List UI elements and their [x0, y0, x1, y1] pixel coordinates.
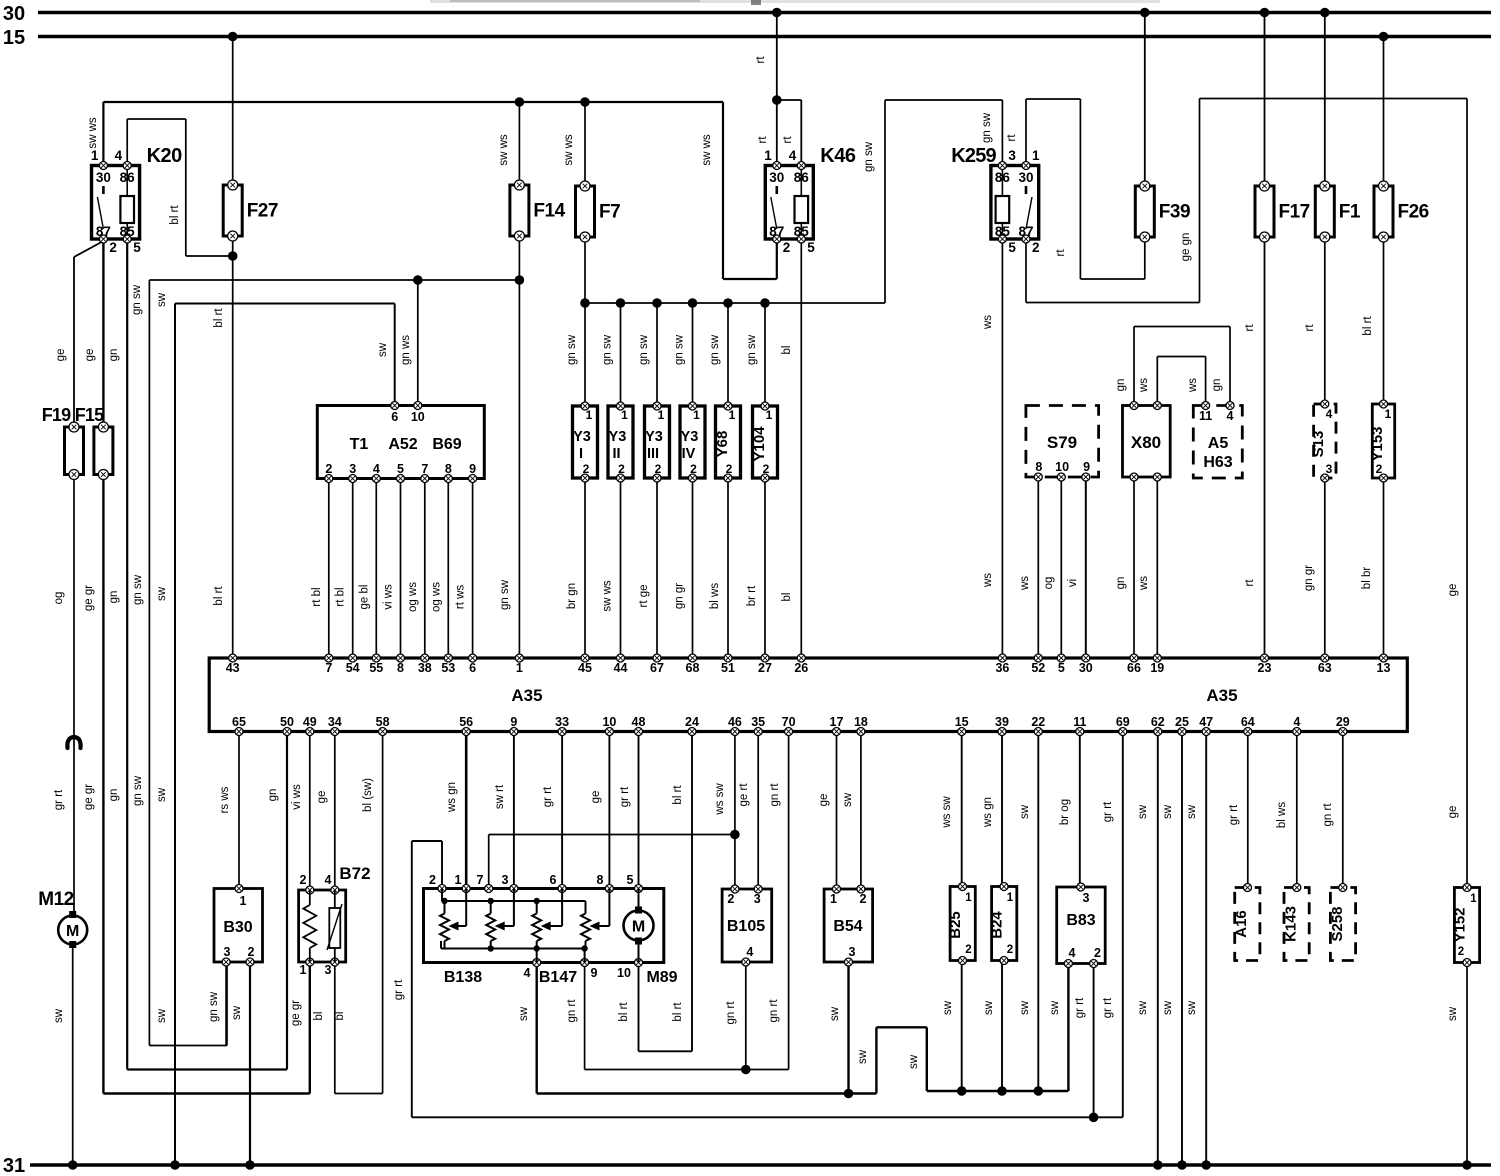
svg-text:4: 4 [325, 873, 332, 887]
svg-text:52: 52 [1031, 661, 1045, 675]
svg-text:25: 25 [1175, 715, 1189, 729]
fuse F27 [223, 180, 278, 241]
svg-text:bl: bl [781, 593, 793, 602]
svg-text:15: 15 [3, 27, 25, 49]
node sw on busbar 31 [170, 1160, 180, 1170]
wire bl ws from A35-4 to K143 [1276, 732, 1297, 886]
busbar 15 [3, 27, 1491, 49]
svg-text:64: 64 [1241, 715, 1255, 729]
node F26 on busbar 15 [1379, 32, 1389, 42]
svg-text:B30: B30 [223, 919, 252, 936]
svg-text:4: 4 [746, 945, 753, 959]
svg-text:10: 10 [617, 966, 631, 980]
svg-text:19: 19 [1150, 661, 1164, 675]
svg-text:15: 15 [955, 715, 969, 729]
svg-text:8: 8 [397, 661, 404, 675]
svg-text:2: 2 [860, 892, 867, 906]
svg-text:34: 34 [328, 715, 342, 729]
svg-text:gr rt: gr rt [1102, 801, 1114, 822]
wire gn sw F7 to Y3-I and manifold [566, 237, 585, 406]
wire sw from A35-22 to ground net [1019, 732, 1038, 1092]
svg-text:10: 10 [1055, 460, 1069, 474]
svg-text:ge gn: ge gn [1180, 233, 1192, 262]
svg-text:sw: sw [1019, 804, 1031, 819]
node gn sw tap Y3-II [616, 298, 626, 308]
svg-text:46: 46 [728, 715, 742, 729]
wire rt from F39 to K259-30 [1006, 99, 1145, 279]
svg-text:Y153: Y153 [1369, 426, 1386, 461]
wire gn sw to Y3-II [602, 303, 621, 406]
valve Y153 [1369, 400, 1395, 482]
svg-text:F19: F19 [42, 405, 71, 425]
wire br rt from valve to A35 [746, 478, 765, 658]
svg-text:gr rt: gr rt [53, 789, 65, 810]
wire sw from M12 to busbar 31 [53, 944, 73, 1165]
node F7 tap on sw ws wire [580, 97, 590, 107]
svg-text:5: 5 [1008, 240, 1016, 255]
svg-text:30: 30 [1018, 170, 1033, 185]
svg-text:sw: sw [942, 1000, 954, 1015]
A35 pin 36 [995, 654, 1009, 675]
svg-text:70: 70 [782, 715, 796, 729]
busbar 31 [3, 1155, 1491, 1176]
wire ws gn from A35-56 to B138-1 [446, 732, 466, 889]
wire gn from X80 to A35-66 [1115, 477, 1134, 658]
svg-text:gn: gn [108, 591, 120, 604]
svg-text:M: M [66, 923, 79, 940]
svg-text:4: 4 [1293, 715, 1300, 729]
sensor B30 [214, 885, 263, 967]
A35 pin 69 [1116, 715, 1130, 736]
svg-text:sw: sw [156, 586, 168, 601]
svg-text:bl rt: bl rt [169, 205, 181, 225]
A35 pin 70 [782, 715, 796, 736]
sensor B105 [722, 885, 772, 966]
svg-text:sw: sw [1049, 1000, 1061, 1015]
wire ge from K20-87 to F15 [84, 240, 103, 428]
svg-text:A35: A35 [511, 686, 542, 705]
svg-text:II: II [612, 446, 620, 462]
svg-text:br og: br og [1059, 799, 1071, 825]
svg-text:F14: F14 [533, 201, 565, 222]
node K46-86 branch [772, 95, 782, 105]
svg-text:50: 50 [280, 715, 294, 729]
svg-text:B25: B25 [947, 911, 964, 939]
svg-text:2: 2 [1032, 240, 1040, 255]
svg-text:ge gr: ge gr [83, 784, 95, 810]
svg-text:sw ws: sw ws [498, 134, 510, 166]
svg-text:br rt: br rt [746, 585, 758, 606]
svg-text:1: 1 [766, 408, 773, 422]
svg-text:ws sw: ws sw [714, 783, 726, 816]
wire og / gr rt from F19 to M12 [53, 475, 81, 917]
svg-text:2: 2 [1007, 944, 1013, 956]
svg-text:1: 1 [1385, 407, 1392, 421]
wire bl from K46-85 to A35-26 [781, 239, 801, 658]
svg-text:bl rt: bl rt [672, 785, 684, 805]
svg-text:bl: bl [313, 1012, 325, 1021]
svg-text:9: 9 [1083, 460, 1090, 474]
node pot1 top [441, 898, 447, 904]
svg-text:63: 63 [1318, 661, 1332, 675]
node sw at B24-2 [997, 1086, 1007, 1096]
svg-text:A35: A35 [1206, 686, 1237, 705]
wire B30-3 to gn sw branch [225, 962, 227, 1046]
node pot3 top [534, 898, 540, 904]
svg-text:3: 3 [502, 873, 509, 887]
wire ws sw from A35-15 to B25-1 [941, 732, 962, 887]
wire F26 feed from busbar 15 [1383, 37, 1385, 187]
svg-text:sw rt: sw rt [494, 784, 506, 809]
wire gn sw to Y68 [709, 303, 728, 406]
svg-text:bl: bl [334, 1012, 346, 1021]
A35 pin 49 [303, 715, 317, 736]
node B30-2 on busbar 31 [245, 1160, 255, 1170]
svg-text:F39: F39 [1159, 202, 1190, 223]
svg-text:8: 8 [597, 873, 604, 887]
svg-text:45: 45 [578, 661, 592, 675]
svg-text:11: 11 [1073, 715, 1086, 729]
fuse F1 [1315, 181, 1361, 242]
svg-text:gn: gn [267, 789, 279, 802]
svg-text:ge: ge [1447, 806, 1459, 819]
svg-text:H63: H63 [1203, 454, 1232, 471]
svg-text:gn: gn [108, 349, 120, 362]
switch S79 [1026, 406, 1099, 482]
svg-text:I: I [579, 446, 583, 462]
svg-text:rt: rt [1055, 249, 1067, 257]
svg-text:18: 18 [854, 715, 868, 729]
svg-text:9: 9 [591, 966, 598, 980]
wire ge gr from F15 to B72-1 [83, 475, 310, 1094]
svg-text:gn sw: gn sw [208, 991, 220, 1022]
svg-text:30: 30 [96, 170, 111, 185]
svg-text:rt: rt [1244, 579, 1256, 587]
wire sw from B25-2 to ground net [942, 961, 962, 1092]
A35 pin 4 [1293, 715, 1301, 736]
svg-text:30: 30 [3, 3, 25, 25]
fuse F39 [1135, 181, 1190, 242]
svg-text:S79: S79 [1047, 433, 1077, 452]
svg-text:2: 2 [1458, 946, 1464, 958]
wire rt from F17 to A35-23 [1244, 236, 1265, 658]
node Y152 on busbar 31 [1462, 1160, 1472, 1170]
svg-text:sw: sw [231, 1005, 243, 1020]
wire ws loop X80 to A5/H63-11 [1138, 357, 1206, 406]
thermistor in B72 [327, 890, 342, 962]
wire vi ws from A35-49 to B72-2 [291, 732, 310, 889]
node A35-62 on busbar 31 [1153, 1160, 1163, 1170]
svg-text:ws gn: ws gn [982, 797, 994, 828]
svg-text:vi: vi [1067, 579, 1079, 587]
wire gn from K20-85 to A35-50 [108, 240, 287, 1070]
svg-text:4: 4 [1326, 407, 1333, 421]
node gn sw tap Y104 [760, 298, 770, 308]
svg-text:gr rt: gr rt [619, 786, 631, 807]
node pot2 bottom [488, 945, 494, 951]
svg-text:sw ws: sw ws [563, 134, 575, 166]
valve Y3 [608, 402, 633, 482]
svg-text:sw: sw [842, 792, 854, 807]
svg-text:gn sw: gn sw [746, 334, 758, 365]
wire rt from F1 to S13-4 [1304, 236, 1325, 404]
svg-text:17: 17 [830, 715, 844, 729]
svg-text:67: 67 [650, 661, 664, 675]
wire F1 feed from busbar 30 [1324, 13, 1326, 187]
svg-text:1: 1 [830, 892, 837, 906]
node pot3 bottom [534, 945, 540, 951]
wire rt from busbar 30 to K46-30 and K46-86 [755, 13, 801, 166]
svg-text:ws: ws [1138, 576, 1150, 591]
wire gn sw branch to T1-10 and B30-3 [131, 280, 519, 1046]
wire ge from A35-34 to B72-4 [316, 732, 335, 889]
node ws sw branch at B105-2 [730, 830, 740, 840]
svg-text:rt bl: rt bl [335, 587, 347, 606]
svg-text:ge: ge [316, 791, 328, 804]
svg-text:2: 2 [763, 462, 770, 476]
svg-text:M89: M89 [646, 969, 677, 986]
fuse F7 [576, 181, 621, 242]
svg-text:sw: sw [1186, 1000, 1198, 1015]
svg-text:1: 1 [965, 892, 972, 904]
unit A16 [1233, 884, 1260, 961]
wire ws from S79-8 to A35-52 [1019, 477, 1038, 658]
svg-text:1: 1 [1032, 148, 1040, 163]
svg-text:bl rt: bl rt [672, 1002, 684, 1022]
svg-text:5: 5 [1058, 661, 1065, 675]
svg-text:B105: B105 [727, 918, 765, 935]
wire ge bl from T1 to A35 [358, 479, 376, 659]
wire sw from B54-3 to ground net [829, 962, 849, 1094]
motor M12 [38, 889, 87, 948]
svg-text:2: 2 [965, 944, 971, 956]
A35 pin 55 [369, 654, 383, 675]
A35 pin 27 [758, 654, 772, 675]
svg-text:gn sw: gn sw [499, 579, 511, 610]
svg-text:sw: sw [1137, 804, 1149, 819]
fuse F17 [1255, 181, 1310, 242]
wire og ws from T1 to A35 [407, 479, 425, 659]
busbar 30 [3, 3, 1491, 25]
svg-text:rt: rt [1244, 324, 1256, 332]
svg-text:ws: ws [1019, 576, 1031, 591]
A35 pin 7 [325, 654, 333, 675]
wire sw from A35-18 to B54-2 [842, 732, 861, 889]
svg-text:1: 1 [764, 148, 772, 163]
svg-text:1: 1 [240, 894, 247, 908]
svg-text:bl ws: bl ws [709, 583, 721, 609]
node K46 feed on busbar 30 [772, 8, 782, 18]
A35 pin 62 [1151, 715, 1165, 736]
svg-text:sw: sw [908, 1054, 920, 1069]
svg-text:gn ws: gn ws [400, 335, 412, 365]
svg-text:bl (sw): bl (sw) [362, 778, 374, 812]
wire sw from T1-6 to busbar 31 [156, 292, 395, 1165]
svg-text:gn gr: gn gr [674, 583, 686, 609]
node gn sw branch at F14 output [515, 275, 525, 285]
svg-text:bl rt: bl rt [618, 1002, 630, 1022]
svg-text:4: 4 [115, 148, 123, 163]
svg-text:sw: sw [156, 1008, 168, 1023]
svg-text:2: 2 [109, 240, 117, 255]
svg-text:10: 10 [411, 410, 425, 424]
svg-text:III: III [647, 446, 659, 462]
svg-text:6: 6 [550, 873, 557, 887]
valve Y3 [680, 402, 705, 482]
wire bl rt from F26 to Y153-1 [1362, 236, 1384, 404]
control unit T1 A52 B69 [317, 402, 484, 483]
svg-text:bl rt: bl rt [213, 586, 225, 606]
A35 pin 5 [1057, 654, 1065, 675]
svg-text:og ws: og ws [407, 582, 419, 612]
svg-text:2: 2 [300, 873, 307, 887]
svg-text:ws: ws [1187, 378, 1199, 393]
svg-text:1: 1 [729, 408, 736, 422]
svg-text:48: 48 [632, 715, 646, 729]
wire bl br from Y153-2 to A35-13 [1361, 478, 1384, 658]
svg-text:gn gr: gn gr [1303, 565, 1315, 591]
svg-text:bl br: bl br [1361, 567, 1373, 590]
svg-text:sw: sw [1137, 1000, 1149, 1015]
A35 pin 54 [346, 654, 360, 675]
svg-text:Y104: Y104 [751, 426, 768, 462]
svg-text:gr rt: gr rt [1074, 997, 1086, 1018]
svg-text:2: 2 [583, 462, 590, 476]
svg-text:sw: sw [156, 292, 168, 307]
A35 pin 67 [650, 654, 664, 675]
svg-text:30: 30 [769, 170, 784, 185]
node sw at A35-22 drop [1034, 1086, 1044, 1096]
A35 pin 25 [1175, 715, 1189, 736]
svg-text:56: 56 [459, 715, 473, 729]
potentiometer bus in B138 [442, 889, 586, 914]
wire gr rt net B138-2 B83-2 A35-69 [393, 732, 1123, 1118]
svg-text:24: 24 [685, 715, 699, 729]
wire gn sw manifold to K259-86 [585, 100, 1002, 303]
svg-text:ge gr: ge gr [83, 585, 95, 611]
svg-text:3: 3 [1008, 148, 1016, 163]
potentiometer 2 in B138 [486, 889, 514, 949]
svg-text:rt ge: rt ge [638, 584, 650, 607]
svg-text:gn sw: gn sw [981, 112, 993, 143]
wire ws gn from A35-39 to B24-1 [982, 732, 1002, 887]
A35 pin 48 [632, 715, 646, 736]
wire gn gr from valve to A35 [674, 478, 693, 658]
svg-text:2: 2 [655, 462, 662, 476]
relay K20 [91, 145, 182, 255]
wire sw from B24-2 to ground net [983, 961, 1002, 1092]
svg-text:gn sw: gn sw [674, 334, 686, 365]
A35 pin 30 [1079, 654, 1093, 675]
svg-text:1: 1 [1470, 893, 1477, 905]
wire gn gr from S13-3 to A35-63 [1303, 478, 1325, 658]
svg-text:ge: ge [84, 349, 96, 362]
sensor B25 [947, 883, 975, 965]
svg-text:gn: gn [108, 789, 120, 802]
wire gn sw from F14 to A35-1 [499, 236, 519, 658]
svg-text:8: 8 [1035, 460, 1042, 474]
svg-text:1: 1 [586, 408, 593, 422]
svg-text:sw: sw [857, 1049, 869, 1064]
svg-text:68: 68 [686, 661, 700, 675]
svg-text:A5: A5 [1208, 435, 1229, 452]
wire gn sw to Y104 [746, 303, 765, 406]
wire rt ws from T1 to A35 [455, 479, 473, 659]
wire sw from A35-62 to busbar 31 [1137, 732, 1158, 1166]
svg-text:30: 30 [1079, 661, 1093, 675]
svg-text:Y152: Y152 [1452, 907, 1469, 942]
svg-text:K20: K20 [147, 145, 183, 167]
A35 pin 66 [1127, 654, 1141, 675]
svg-text:31: 31 [3, 1155, 25, 1176]
A35 pin 50 [280, 715, 294, 736]
svg-text:gn rt: gn rt [768, 999, 780, 1023]
wire ws sw from A35-46 to B105-2 and B138-7 [489, 732, 735, 889]
A35 pin 33 [555, 715, 569, 736]
svg-text:sw: sw [53, 1008, 65, 1023]
svg-text:2: 2 [1094, 946, 1101, 960]
node junction F27 bottom [228, 251, 238, 261]
wire ge from A35-10 to B138-8 [590, 732, 609, 889]
svg-text:69: 69 [1116, 715, 1130, 729]
unit S258 [1329, 884, 1356, 961]
svg-text:gn sw: gn sw [132, 574, 144, 605]
svg-text:7: 7 [325, 661, 332, 675]
wire rt bl from T1 to A35 [335, 479, 353, 659]
svg-text:1: 1 [516, 661, 523, 675]
svg-text:rt: rt [755, 56, 767, 64]
A35 pin 13 [1377, 654, 1391, 675]
svg-text:K46: K46 [820, 145, 856, 167]
svg-text:47: 47 [1199, 715, 1213, 729]
valve Y152 [1452, 884, 1480, 967]
wire gn rt net B147-9 B105-4 A35-70 [566, 732, 789, 1070]
wire sw rt from A35-9 to B138-3 [494, 732, 514, 889]
svg-text:4: 4 [1227, 409, 1234, 423]
svg-text:7: 7 [477, 873, 484, 887]
node F14 tap on sw ws wire [515, 97, 525, 107]
wire sw ws F14 drop [518, 102, 520, 185]
svg-text:sw ws: sw ws [87, 117, 99, 149]
svg-text:sw: sw [983, 1000, 995, 1015]
svg-text:ge rt: ge rt [738, 783, 750, 807]
node F1 on busbar 30 [1320, 8, 1330, 18]
wire gn sw to Y3-III [638, 303, 657, 406]
svg-text:br gn: br gn [566, 583, 578, 609]
A35 pin 10 [602, 715, 616, 736]
svg-text:1: 1 [658, 408, 665, 422]
svg-text:sw: sw [1447, 1006, 1459, 1021]
svg-text:66: 66 [1127, 661, 1141, 675]
sensor B83 [1057, 883, 1106, 968]
svg-text:13: 13 [1377, 661, 1391, 675]
svg-text:2: 2 [429, 873, 436, 887]
wire og ws from T1 to A35 [430, 479, 448, 659]
svg-text:ge: ge [590, 791, 602, 804]
wire br gn from valve to A35 [566, 478, 585, 658]
wire sw ws F7 drop [584, 102, 586, 186]
fuse F19 [42, 405, 84, 480]
svg-text:sw ws: sw ws [602, 580, 614, 612]
unit A5 H63 [1193, 402, 1242, 479]
svg-text:B138: B138 [444, 969, 482, 986]
fuse F14 [510, 180, 566, 241]
svg-text:23: 23 [1258, 661, 1272, 675]
sensor B24 [989, 883, 1017, 965]
svg-text:A52: A52 [388, 436, 417, 453]
svg-text:1: 1 [300, 963, 307, 977]
svg-text:Y3: Y3 [573, 429, 591, 445]
